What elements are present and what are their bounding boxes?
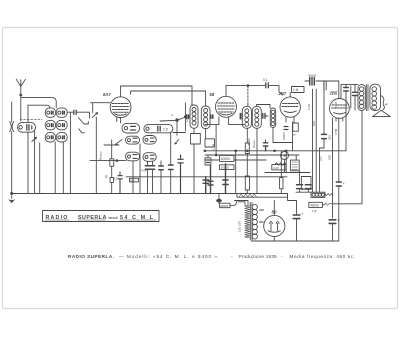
main ground rail [12, 194, 297, 201]
wire antenna to coil L1 [20, 96, 22, 122]
capacitor C20 (+) [336, 181, 345, 242]
resistor R1 (small inline box) [110, 140, 114, 194]
svg-text:6,4K: 6,4K [307, 104, 311, 110]
resistor R2 (inline on IF2 left drop) [245, 128, 249, 193]
wire verticals mid-right [281, 151, 299, 185]
capacitor C17 (us19 top) [305, 74, 339, 86]
wire V4 pins [328, 118, 343, 218]
resistor R7 (44000 box) [220, 203, 231, 208]
antenna coil block L2 (2 cols x 3 rows ovals) [45, 108, 55, 142]
capacitor C5 [159, 161, 173, 194]
wire HT to rectifier [230, 201, 274, 216]
wire A: V1 top cap to IF1 [121, 86, 192, 105]
wire to V3 grid [269, 86, 283, 96]
svg-text:43000: 43000 [310, 204, 319, 208]
wire osc block verticals to rail [133, 133, 171, 194]
box B4 (left of bottom cluster) [296, 177, 311, 193]
capacitor C14 [208, 166, 213, 194]
node dots on buses [116, 150, 288, 162]
svg-text:250: 250 [328, 155, 332, 160]
trimmer arrow T1 [32, 137, 37, 141]
output transformer OT core [366, 85, 368, 111]
capacitor C8 (IF1 right) [211, 115, 213, 118]
svg-text:300: 300 [328, 135, 332, 140]
pot P2 (vertical box) [290, 160, 299, 171]
capacitor C1 (series arcs in left leg) [10, 102, 14, 194]
capacitor C13 [203, 177, 209, 194]
power transformer PT core [250, 203, 252, 241]
IF transformer IF1 secondary [201, 106, 210, 129]
coil L6 (output choke winding) [350, 86, 352, 108]
capacitor C11 (IF2 right) [263, 114, 268, 119]
wire V1 pins down [117, 117, 121, 123]
bottom return wire [252, 240, 339, 242]
svg-text:1 M: 1 M [293, 88, 299, 92]
capacitor C12 (left of R3) [284, 127, 288, 130]
capacitor C4 group (to ground) [145, 166, 154, 194]
output transformer OT secondary [370, 84, 381, 110]
caption text [68, 254, 355, 259]
capacitor C10 (IF2 left dark bar) [240, 114, 242, 119]
tube V2 58 [210, 86, 237, 118]
wire to output transformer [355, 83, 358, 85]
box B3 (label box near V3 top) [292, 87, 305, 93]
box B1 under IF1 [178, 128, 201, 193]
svg-text:0,1: 0,1 [263, 78, 268, 82]
oscillator coil L4 row2 [126, 136, 157, 145]
svg-text:Rosso: Rosso [252, 140, 256, 148]
wire V4 grid cap [341, 84, 355, 110]
svg-text:51K: 51K [312, 121, 316, 126]
wire verticals left coil block to rail [35, 131, 64, 194]
svg-text:2B7: 2B7 [278, 91, 287, 96]
svg-text:4,7: 4,7 [113, 177, 118, 181]
resistor R5 40000 [220, 155, 235, 169]
switch hooks S1 [79, 118, 89, 133]
antenna coil block L3 (right column) [56, 108, 67, 142]
svg-text:40000: 40000 [308, 74, 317, 78]
wire verticals mid-left to rail [70, 112, 119, 193]
resistor R6 (inline box 485) [280, 178, 283, 194]
tube V5 80 [264, 210, 285, 237]
speaker SPK [373, 96, 391, 117]
tube V1 6A7 [103, 86, 131, 118]
oscillator coil L4 row1 left [122, 123, 140, 133]
capacitor C3 [67, 110, 89, 118]
svg-text:Rosso: Rosso [99, 151, 103, 160]
capacitor C6 with label [113, 172, 122, 194]
capacitor C21 (x346 top) [344, 84, 349, 150]
svg-text:AP: AP [385, 103, 389, 107]
coupling dashed line [20, 118, 42, 120]
pot P1 (circle) [281, 152, 289, 173]
resistor R4 zigzag with box label [272, 163, 286, 170]
wire stubs near V4 top [324, 81, 326, 90]
switch contact S3 right [175, 140, 179, 144]
capacitor C15 [223, 164, 228, 194]
svg-text:58: 58 [210, 92, 215, 97]
svg-text:a t: a t [293, 133, 297, 137]
wire long vertical x338.8 [334, 81, 339, 182]
power transformer PT secondary (loops) [252, 204, 257, 239]
tube V3 2B7 [278, 91, 301, 117]
tube V4 2B5 [329, 91, 350, 119]
wire IF2 tops [247, 84, 270, 108]
svg-text:0,5M: 0,5M [334, 128, 338, 135]
svg-text:13200: 13200 [185, 114, 189, 122]
wire OT bottom down [333, 111, 363, 204]
output transformer OT primary [358, 85, 365, 111]
wire grid feed to tube V1 [91, 103, 111, 113]
electrolytic E2 [329, 218, 340, 242]
coil L1 (antenna primary oval) [18, 122, 36, 132]
node dot (junction near rail) [216, 194, 222, 204]
svg-text:185: 185 [319, 156, 323, 161]
svg-text:5,1K: 5,1K [334, 102, 338, 108]
wire C: V2 top cap bus [226, 85, 265, 87]
oscillator coil L4 row3 [126, 152, 157, 161]
capacitor C7 (IF1 left) [185, 103, 188, 131]
svg-text:1,5M: 1,5M [211, 143, 215, 150]
electrolytic E1 [293, 201, 304, 242]
capacitor C2 (inline on vertical) [27, 105, 29, 193]
wire top feed to antenna coil block [28, 105, 50, 108]
wire vertical x318 with capacitor C18 [319, 82, 327, 192]
svg-text:80: 80 [272, 210, 277, 215]
resistor R3 (small under V3) [293, 123, 299, 137]
svg-text:2,5: 2,5 [163, 127, 168, 131]
wire V2 pins [205, 117, 244, 156]
svg-text:4 uF: 4 uF [141, 169, 147, 173]
svg-text:+: + [337, 218, 340, 223]
svg-text:kg: kg [104, 175, 108, 178]
oscillator coil L4 row1 right (with padder cap) [144, 125, 173, 133]
svg-text:0,25: 0,25 [273, 166, 279, 170]
svg-text:+: + [301, 211, 304, 216]
IF transformer IF2 primary [242, 106, 251, 128]
twin screen-grid lines [307, 89, 316, 192]
bus wires (mid) [90, 151, 346, 194]
wire IF2 right drop [256, 128, 258, 193]
IF transformer IF1 primary [190, 105, 198, 128]
capacitor C9 (series, 0,1) [263, 78, 268, 88]
svg-text:125 160: 125 160 [238, 221, 242, 232]
wire V3 pins down [286, 117, 294, 123]
resistor R8 (43000 box with zigzag) [311, 192, 333, 197]
svg-text:500: 500 [130, 178, 135, 182]
svg-text:40000: 40000 [221, 157, 231, 161]
node J1 junction dots [160, 114, 187, 136]
antenna [16, 79, 56, 108]
coil L5 (diode winding) [270, 108, 292, 151]
switch contact S2 left [115, 140, 122, 145]
svg-text:RADIO SUPERLA.— Modelli: «54 C: RADIO SUPERLA.— Modelli: «54 C. M. L. e … [68, 254, 355, 259]
svg-text:44029: 44029 [220, 204, 229, 208]
ground [8, 194, 15, 203]
label box (hand lettered) [43, 211, 160, 222]
capacitor C19 [353, 92, 358, 95]
svg-text:P: P [172, 114, 174, 118]
coil L7 (field coil box) [309, 202, 333, 213]
power transformer PT primary (zigzag) [238, 202, 250, 238]
box B2 (component left of V2 lower) [205, 139, 215, 165]
svg-text:8,2M: 8,2M [247, 138, 251, 145]
wire rectifier filament/output [260, 210, 275, 241]
svg-text:6A7: 6A7 [103, 92, 111, 97]
narrow long box (chassis bar) [237, 194, 288, 198]
svg-text:+: + [343, 181, 346, 186]
IF transformer IF2 secondary [252, 106, 261, 128]
svg-text:1 W: 1 W [312, 209, 317, 213]
wire B: to IF1 secondary [131, 91, 206, 106]
svg-text:54000: 54000 [282, 132, 286, 140]
trimmer arrow T2 [92, 113, 97, 118]
svg-text:2B5: 2B5 [329, 91, 338, 96]
capacitor C16 [263, 140, 267, 151]
